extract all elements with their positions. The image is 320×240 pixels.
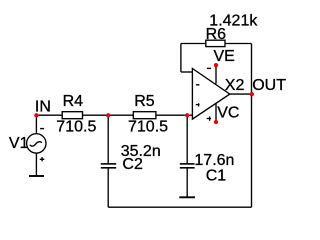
wire node B down to C1 xyxy=(186,115,188,163)
resistor R6 xyxy=(206,13,259,47)
svg-text:C1: C1 xyxy=(206,167,227,184)
wire op-amp output to OUT xyxy=(230,93,252,95)
wire C1 to ground xyxy=(186,168,188,198)
ground for V1 xyxy=(29,175,44,177)
svg-text:710.5: 710.5 xyxy=(56,119,96,136)
svg-text:VC: VC xyxy=(217,105,239,122)
ground for C1 xyxy=(179,196,195,198)
wire C2 to bottom rail xyxy=(107,168,109,207)
wire right vertical from bottom rail up to feedback xyxy=(251,44,253,208)
wire IN node down to V1 xyxy=(35,115,37,134)
wire feedback top to R6 and right vertical xyxy=(181,43,252,45)
node B junction R5 C1 op-amp xyxy=(185,113,189,117)
svg-text:C2: C2 xyxy=(122,156,143,173)
svg-text:OUT: OUT xyxy=(252,77,286,94)
node A junction R4 R5 C2 xyxy=(106,113,110,117)
svg-text:X2: X2 xyxy=(225,77,245,94)
svg-text:IN: IN xyxy=(35,99,51,116)
wire node A down to C2 xyxy=(107,115,109,163)
op-amp X2 xyxy=(192,48,244,122)
wire feedback left vertical xyxy=(180,44,182,73)
wire feedback to inverting input xyxy=(181,71,193,73)
wire V1 to ground xyxy=(35,153,37,176)
svg-text:VE: VE xyxy=(214,48,235,65)
svg-text:R5: R5 xyxy=(134,93,155,110)
node OUT xyxy=(250,77,287,96)
voltage source V1 xyxy=(9,129,46,162)
node VC pin xyxy=(214,120,218,124)
capacitor C2 xyxy=(101,143,161,173)
wire bottom rail to OUT branch xyxy=(108,206,251,208)
resistor R4 xyxy=(56,93,96,136)
svg-text:710.5: 710.5 xyxy=(128,119,168,136)
resistor R5 xyxy=(128,93,168,136)
svg-text:V1: V1 xyxy=(9,135,29,152)
node IN xyxy=(34,99,51,118)
node VE pin xyxy=(214,63,218,67)
svg-text:1.421k: 1.421k xyxy=(209,13,258,30)
capacitor C1 xyxy=(180,152,235,184)
wire IN to op-amp non-inverting input xyxy=(36,114,192,116)
svg-text:R4: R4 xyxy=(63,93,84,110)
